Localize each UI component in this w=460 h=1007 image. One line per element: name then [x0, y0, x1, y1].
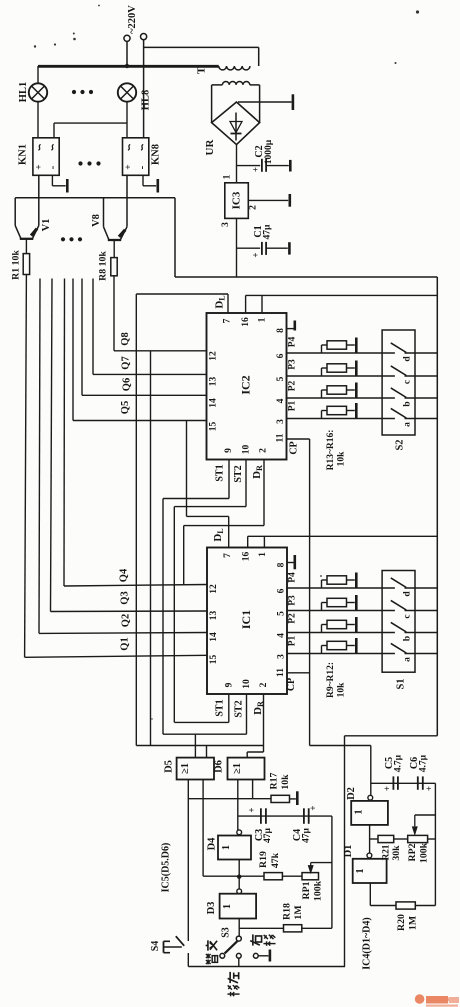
svg-text:10: 10	[242, 679, 252, 689]
svg-text:+: +	[250, 167, 260, 172]
svg-text:2: 2	[249, 205, 259, 210]
svg-text:IC4(D1~D4): IC4(D1~D4)	[362, 917, 373, 969]
svg-text:IC3: IC3	[231, 191, 243, 209]
svg-text:14: 14	[209, 398, 219, 408]
svg-text:R21: R21	[381, 844, 391, 860]
svg-text:b: b	[403, 401, 413, 406]
svg-text:47µ: 47µ	[302, 827, 312, 843]
svg-text:Q4: Q4	[119, 568, 130, 582]
svg-text:≥1: ≥1	[232, 763, 243, 774]
svg-text:2: 2	[259, 448, 269, 453]
svg-text:a: a	[403, 657, 413, 662]
svg-text:D4: D4	[207, 837, 218, 851]
svg-text:R9~R12:: R9~R12:	[326, 662, 336, 698]
svg-text:d: d	[403, 591, 413, 597]
svg-text:13: 13	[209, 611, 219, 621]
svg-text:10k: 10k	[280, 774, 291, 790]
svg-text:8: 8	[276, 328, 286, 333]
svg-text:S3: S3	[221, 927, 232, 938]
svg-text:ST1: ST1	[215, 699, 226, 716]
svg-text:Q2: Q2	[121, 614, 132, 627]
svg-text:5: 5	[277, 611, 287, 616]
svg-text:47µ: 47µ	[263, 224, 273, 240]
svg-text:Q7: Q7	[121, 356, 132, 369]
svg-text:T: T	[196, 66, 208, 74]
svg-text:D1: D1	[343, 845, 354, 858]
svg-text:+: +	[250, 252, 260, 257]
svg-text:R19: R19	[258, 851, 269, 868]
svg-text:Q3: Q3	[120, 591, 131, 604]
svg-text:1000µ: 1000µ	[264, 139, 274, 164]
svg-text:+: +	[382, 786, 392, 791]
svg-text:-: -	[136, 165, 148, 169]
svg-text:V1: V1	[41, 219, 52, 232]
svg-text:V8: V8	[91, 214, 102, 227]
svg-text:-: -	[47, 165, 59, 169]
svg-text:d: d	[403, 356, 413, 362]
svg-text:1: 1	[223, 174, 233, 179]
svg-text:10: 10	[242, 445, 252, 455]
svg-text:10k: 10k	[337, 451, 347, 467]
svg-text:R20: R20	[396, 914, 407, 931]
svg-text:P1: P1	[288, 635, 298, 646]
svg-text:4.7µ: 4.7µ	[418, 754, 428, 772]
svg-text:1: 1	[354, 810, 365, 815]
svg-text:47µ: 47µ	[263, 827, 273, 843]
svg-text:P3: P3	[288, 595, 298, 606]
svg-text:13: 13	[209, 377, 219, 387]
svg-text:b: b	[403, 636, 413, 641]
svg-text:Q5: Q5	[120, 401, 131, 414]
svg-text:D6: D6	[214, 760, 225, 773]
svg-text:3: 3	[221, 222, 231, 227]
svg-text:9: 9	[225, 682, 235, 687]
svg-text:4: 4	[276, 398, 286, 403]
svg-text:HL8: HL8	[141, 90, 152, 110]
svg-text:30k: 30k	[391, 845, 402, 861]
svg-text:P2: P2	[288, 613, 298, 624]
svg-text:6: 6	[277, 588, 287, 593]
svg-text:ST2: ST2	[234, 700, 245, 717]
svg-text:UR: UR	[204, 139, 216, 156]
svg-text:5: 5	[276, 376, 286, 381]
svg-text:ST1: ST1	[215, 464, 226, 481]
svg-text:IC5(D5.D6): IC5(D5.D6)	[161, 843, 172, 893]
svg-text:7: 7	[223, 553, 233, 558]
svg-text:P4: P4	[288, 336, 298, 347]
svg-text:12: 12	[209, 351, 219, 361]
svg-text:D3: D3	[206, 902, 217, 915]
svg-text:Q6: Q6	[122, 378, 133, 391]
svg-text:+: +	[424, 786, 434, 791]
svg-text:D2: D2	[346, 787, 357, 800]
svg-text:+: +	[35, 164, 45, 169]
svg-text:P3: P3	[288, 359, 298, 370]
svg-text:7: 7	[223, 318, 233, 323]
svg-text:D5: D5	[164, 760, 175, 773]
svg-text:100k: 100k	[419, 842, 430, 863]
svg-text:1: 1	[258, 552, 268, 557]
svg-text:3: 3	[277, 654, 287, 659]
svg-text:4.7µ: 4.7µ	[394, 754, 404, 772]
svg-text:12: 12	[209, 584, 219, 594]
svg-text:IC1: IC1	[239, 610, 253, 629]
svg-text:CP: CP	[289, 441, 300, 454]
svg-text:Q8: Q8	[120, 332, 131, 345]
svg-text:S1: S1	[396, 678, 407, 689]
svg-text:R18: R18	[282, 903, 293, 920]
svg-text:ST2: ST2	[233, 465, 244, 482]
svg-text:P4: P4	[288, 572, 298, 583]
svg-text:+: +	[124, 164, 134, 169]
svg-text:15: 15	[209, 422, 219, 432]
svg-text:1: 1	[222, 904, 233, 909]
svg-text:KN1: KN1	[18, 144, 29, 165]
svg-text:6: 6	[276, 353, 286, 358]
svg-text:100k: 100k	[313, 880, 324, 901]
svg-text:8: 8	[277, 562, 287, 567]
svg-text:KN8: KN8	[150, 144, 161, 165]
svg-text:1M: 1M	[407, 916, 418, 930]
svg-text:+: +	[247, 807, 257, 812]
svg-text:RP1: RP1	[301, 881, 312, 899]
svg-text:11: 11	[276, 668, 286, 677]
svg-text:c: c	[403, 614, 413, 618]
svg-text:R13~R16:: R13~R16:	[326, 430, 336, 471]
svg-text:R8 10k: R8 10k	[98, 251, 109, 281]
svg-text:4: 4	[277, 633, 287, 638]
svg-text:47k: 47k	[270, 852, 281, 868]
svg-text:≥1: ≥1	[180, 763, 191, 774]
svg-text:R17: R17	[269, 772, 280, 789]
svg-text:CP: CP	[286, 678, 297, 691]
svg-text:S2: S2	[395, 439, 406, 450]
svg-text:16: 16	[242, 552, 252, 562]
svg-text:~220V: ~220V	[127, 5, 138, 34]
svg-text:11: 11	[276, 433, 286, 442]
svg-text:P2: P2	[288, 380, 298, 391]
svg-text:1: 1	[355, 869, 366, 874]
svg-text:16: 16	[241, 317, 251, 327]
svg-text:S4: S4	[150, 941, 161, 952]
svg-text:2: 2	[259, 682, 269, 687]
svg-text:1M: 1M	[293, 905, 304, 919]
svg-text:9: 9	[224, 448, 234, 453]
svg-text:a: a	[403, 422, 413, 427]
svg-text:10k: 10k	[337, 682, 347, 698]
svg-text:IC2: IC2	[239, 375, 253, 394]
svg-text:15: 15	[209, 655, 219, 665]
svg-text:HL1: HL1	[18, 82, 29, 102]
svg-text:14: 14	[209, 632, 219, 642]
svg-text:Q1: Q1	[120, 637, 131, 650]
svg-text:P1: P1	[288, 400, 298, 411]
svg-text:3: 3	[276, 419, 286, 424]
svg-text:+: +	[308, 805, 318, 810]
svg-text:R1 10k: R1 10k	[11, 250, 22, 280]
svg-text:RP2: RP2	[407, 843, 418, 861]
svg-text:1: 1	[258, 317, 268, 322]
svg-text:1: 1	[221, 845, 232, 850]
svg-text:c: c	[403, 380, 413, 384]
